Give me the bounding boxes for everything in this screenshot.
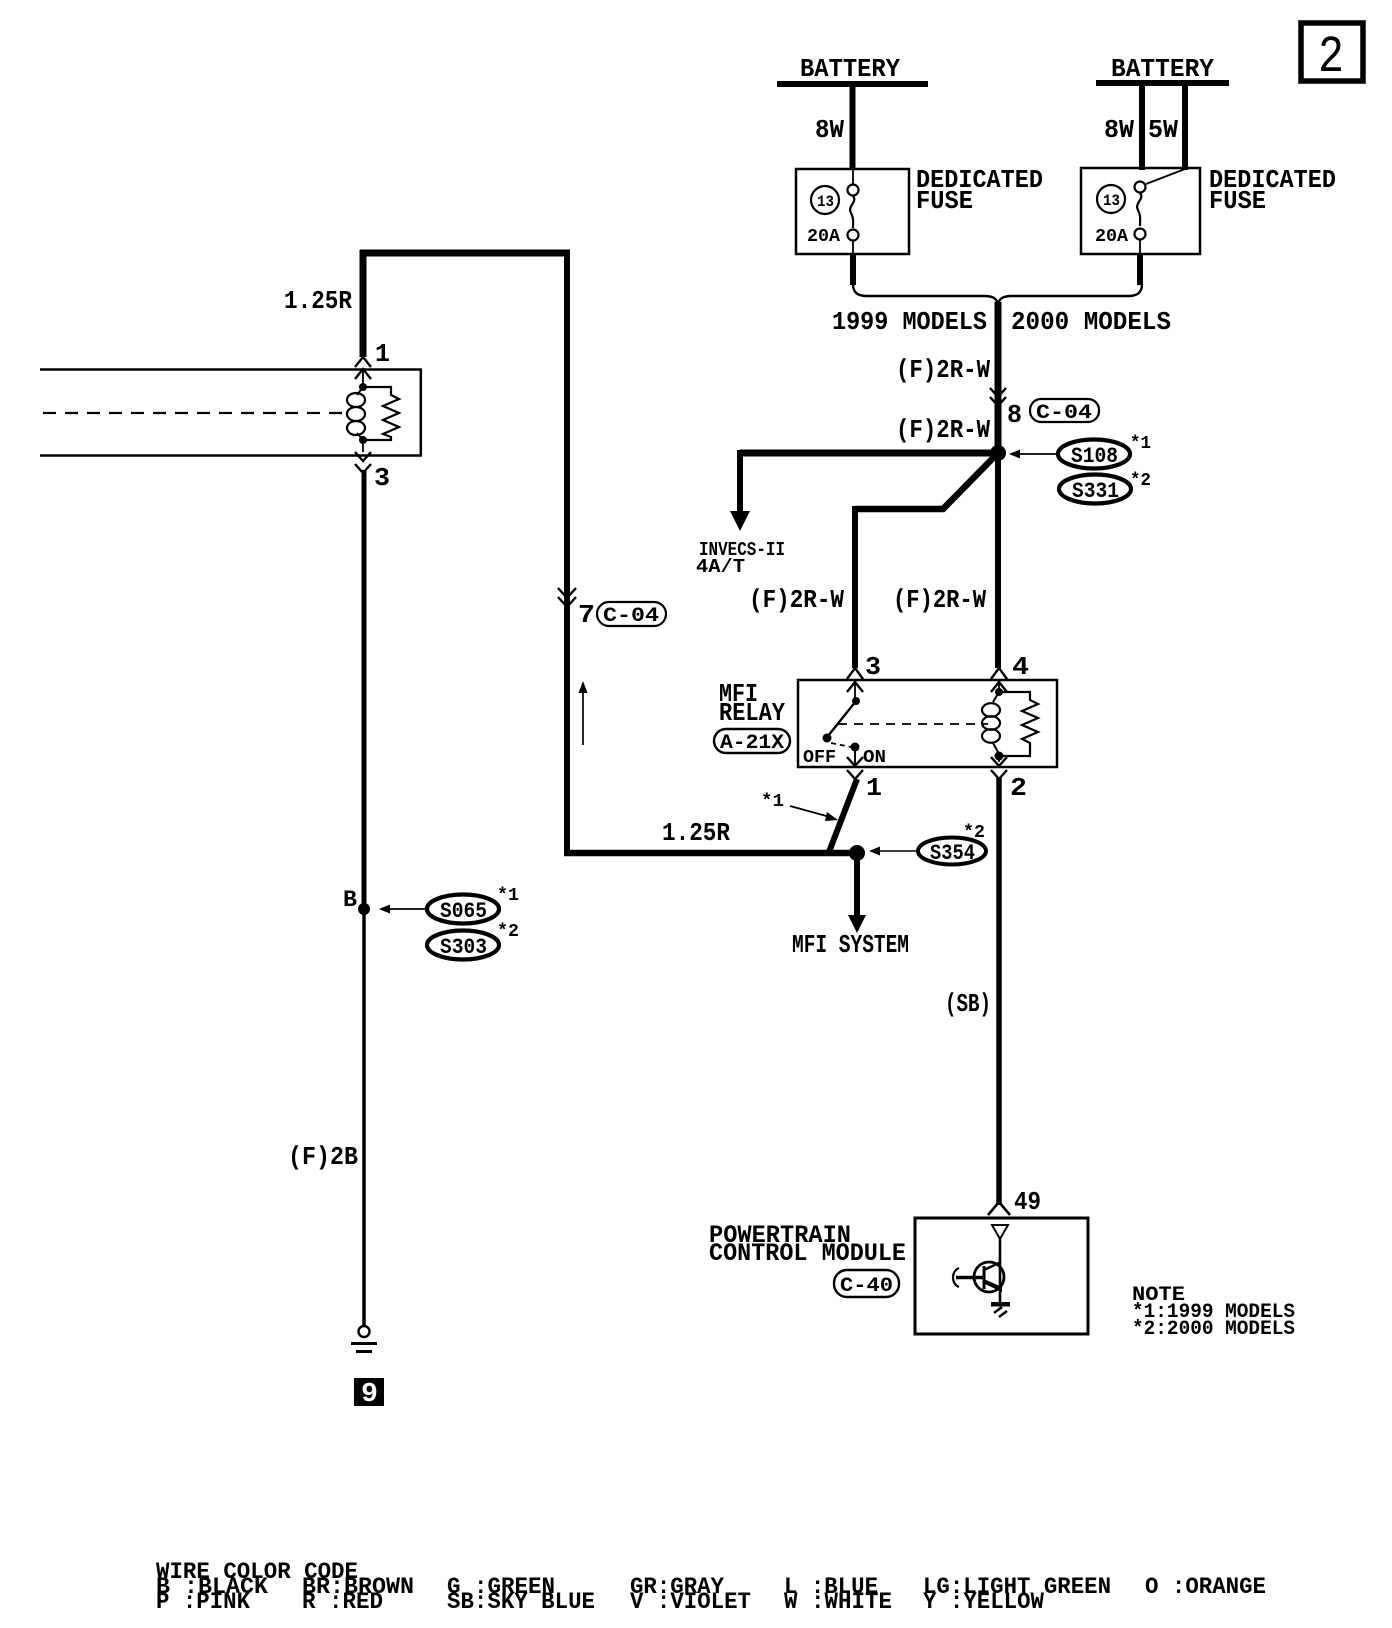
wire color code legend — [156, 1559, 1266, 1615]
svg-text:SB:SKY BLUE: SB:SKY BLUE — [447, 1589, 595, 1615]
node splice S108/S331 junction — [990, 445, 1006, 461]
svg-text:3: 3 — [865, 652, 881, 682]
svg-text:7: 7 — [578, 600, 595, 630]
svg-text:1999 MODELS: 1999 MODELS — [832, 307, 987, 337]
svg-text:8W: 8W — [815, 115, 844, 145]
svg-text:ON: ON — [863, 748, 886, 768]
svg-text:5W: 5W — [1148, 115, 1178, 145]
note *1/*2 — [1132, 1284, 1295, 1341]
brace joining 1999/2000 model feeds — [853, 284, 1142, 305]
svg-text:2: 2 — [1318, 28, 1344, 87]
wire to INVECS-II 4A/T — [696, 450, 998, 578]
svg-text:*1: *1 — [761, 792, 784, 812]
svg-text:C-04: C-04 — [1036, 402, 1092, 425]
connector C-04 pin 7 marker — [558, 588, 666, 630]
wire 8W from battery B1 — [815, 87, 853, 170]
MFI relay pin 1 marker — [847, 747, 882, 803]
PCM internal input triangle — [992, 1225, 1008, 1239]
wire below fuse 13 (2000) — [1137, 254, 1143, 285]
MFI relay pin 3 marker — [847, 652, 881, 692]
dedicated fuse 13 (20A, 2000 models) — [1081, 165, 1336, 254]
svg-text:20A: 20A — [807, 227, 840, 247]
svg-text:*2:2000 MODELS: *2:2000 MODELS — [1132, 1318, 1295, 1341]
svg-text:P :PINK: P :PINK — [156, 1589, 250, 1615]
wire 8W from battery B2 — [1104, 86, 1142, 170]
svg-text:(F)2B: (F)2B — [288, 1142, 358, 1172]
MFI relay coil — [982, 680, 1004, 761]
svg-text:C-40: C-40 — [840, 1275, 893, 1298]
MFI relay dashed link — [838, 723, 988, 725]
left component (condenser fan motor relay coil) pin 1 — [355, 339, 390, 384]
svg-text:13: 13 — [817, 193, 834, 211]
PCM internal ground — [991, 1302, 1010, 1317]
svg-text:FUSE: FUSE — [1209, 186, 1266, 216]
wire 1.25R from left circuit — [284, 250, 857, 856]
splice S065 (*1) — [379, 886, 519, 924]
ground number box 9 — [354, 1378, 384, 1410]
svg-text:MFI SYSTEM: MFI SYSTEM — [792, 930, 909, 960]
wire *1 diagonal (1999 models) — [829, 779, 857, 852]
MFI relay switch contacts — [803, 682, 886, 768]
battery B2 (2000 models) — [1096, 54, 1229, 86]
left component box — [40, 369, 422, 456]
PCM internal transistor Q — [953, 1239, 1004, 1302]
MFI relay coil parallel resistor — [999, 692, 1038, 756]
svg-text:W :WHITE: W :WHITE — [784, 1589, 892, 1615]
wire from junction to relay pin 4 — [893, 453, 998, 668]
svg-text:RELAY: RELAY — [719, 698, 785, 728]
left component pin 3 — [355, 444, 390, 493]
svg-text:S354: S354 — [930, 841, 975, 866]
svg-text:S065: S065 — [440, 899, 487, 924]
svg-text:BATTERY: BATTERY — [800, 54, 900, 84]
splice S108 (*1) — [1009, 434, 1151, 469]
svg-text:S108: S108 — [1071, 444, 1118, 469]
svg-text:B: B — [343, 887, 357, 913]
svg-text:Y :YELLOW: Y :YELLOW — [923, 1589, 1044, 1615]
left component resistor — [363, 387, 399, 440]
svg-text:2000 MODELS: 2000 MODELS — [1011, 307, 1171, 337]
svg-text:S331: S331 — [1072, 479, 1119, 504]
svg-text:*1: *1 — [497, 886, 519, 906]
svg-text:S303: S303 — [440, 935, 487, 960]
svg-text:49: 49 — [1014, 1187, 1041, 1217]
svg-text:(SB): (SB) — [945, 989, 991, 1019]
PCM pin 49 marker — [988, 1187, 1041, 1217]
ground G9 — [351, 1326, 377, 1352]
wire (F)2B to ground — [288, 909, 364, 1326]
battery B1 (1999 models) — [777, 54, 928, 87]
page number box 2 — [1301, 23, 1363, 87]
connector C-04 pin 8 marker — [990, 388, 1099, 430]
svg-text:13: 13 — [1103, 192, 1120, 210]
svg-text:8: 8 — [1007, 400, 1022, 430]
svg-text:BATTERY: BATTERY — [1111, 54, 1214, 84]
svg-text:(F)2R-W: (F)2R-W — [896, 355, 990, 385]
splice S331 (*2) — [1059, 471, 1151, 504]
svg-text:20A: 20A — [1095, 227, 1128, 247]
svg-text:(F)2R-W: (F)2R-W — [896, 415, 990, 445]
svg-text:*2: *2 — [497, 922, 519, 942]
svg-text:V :VIOLET: V :VIOLET — [630, 1589, 751, 1615]
svg-text:4: 4 — [1012, 652, 1029, 682]
current direction arrow — [579, 681, 588, 745]
svg-text:3: 3 — [374, 463, 390, 493]
splice S303 (*2) — [427, 922, 519, 960]
wire below fuse 13 (1999) — [850, 254, 856, 285]
svg-text:OFF: OFF — [803, 748, 836, 768]
svg-text:1.25R: 1.25R — [284, 286, 352, 316]
svg-text:2: 2 — [1010, 773, 1027, 803]
wire (SB) relay pin 2 to PCM pin 49 — [945, 778, 999, 1205]
svg-text:CONTROL MODULE: CONTROL MODULE — [709, 1239, 906, 1268]
dedicated fuse 13 (20A, 1999 models) — [796, 165, 1043, 254]
svg-text:A-21X: A-21X — [720, 732, 784, 755]
wire (F)2R-W main feed — [896, 302, 998, 453]
MFI relay pin 4 marker — [991, 652, 1029, 692]
svg-text:4A/T: 4A/T — [696, 556, 745, 578]
MFI relay pin 2 marker — [991, 756, 1027, 803]
svg-text:R :RED: R :RED — [302, 1589, 383, 1615]
svg-text:9: 9 — [361, 1380, 378, 1410]
wire to MFI system — [792, 853, 909, 960]
*1 pointer to 1999 wire — [761, 792, 838, 821]
left component relay coil — [347, 383, 367, 444]
wire B from pin 3 down — [343, 470, 364, 913]
wire diagonal from junction to relay pin 3 branch — [749, 453, 998, 668]
svg-text:1.25R: 1.25R — [662, 818, 730, 848]
svg-text:(F)2R-W: (F)2R-W — [893, 585, 986, 615]
svg-text:*2: *2 — [1130, 471, 1151, 491]
svg-text:*1: *1 — [1130, 434, 1151, 454]
splice junction S065/S303 — [358, 903, 370, 915]
svg-text:*2: *2 — [963, 823, 985, 843]
svg-text:1: 1 — [375, 339, 390, 369]
svg-text:8W: 8W — [1104, 115, 1134, 145]
svg-text:FUSE: FUSE — [916, 186, 973, 216]
powertrain control module C-40 box — [709, 1218, 1088, 1334]
node junction to MFI system — [849, 845, 865, 861]
svg-text:C-04: C-04 — [603, 605, 659, 628]
wire 5W from battery B2 — [1148, 86, 1185, 170]
svg-text:O :ORANGE: O :ORANGE — [1145, 1574, 1266, 1600]
svg-text:1: 1 — [866, 773, 882, 803]
svg-text:(F)2R-W: (F)2R-W — [749, 585, 844, 615]
MFI relay A-21X box — [714, 679, 1057, 767]
splice S354 (*2) — [869, 823, 986, 866]
